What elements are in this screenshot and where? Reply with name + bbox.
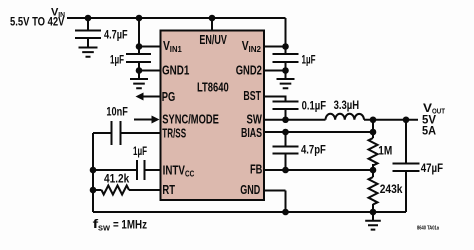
svg-text:5.5V TO 42V: 5.5V TO 42V (10, 17, 65, 29)
ground below C1 (79, 38, 98, 57)
capacitor C1 4.7uF plates (75, 31, 101, 39)
svg-text:IN1: IN1 (170, 45, 183, 54)
svg-text:SW: SW (98, 224, 111, 233)
wire FB line (264, 169, 373, 171)
svg-text:47µF: 47µF (421, 161, 443, 175)
wire INTVCC stub (145, 169, 161, 171)
capacitor C6 0.1uF plates (273, 102, 299, 110)
node dot L-divider (370, 116, 377, 123)
node dot VIN1 drop (136, 15, 143, 22)
resistor R3 243k (369, 177, 378, 205)
capacitor C7 4.7pF plates (273, 147, 299, 154)
node dot BIAS/C7 (282, 129, 289, 136)
svg-text:GND1: GND1 (162, 63, 189, 78)
svg-text:IN2: IN2 (249, 45, 262, 54)
svg-text:BST: BST (243, 88, 261, 103)
svg-text:GND2: GND2 (236, 63, 262, 78)
svg-text:0.1µF: 0.1µF (302, 99, 326, 113)
SYNC arrowhead (152, 116, 160, 124)
node dot SW/BST (282, 116, 289, 123)
svg-text:LT8640: LT8640 (197, 79, 229, 94)
capacitor C8 47uF lead bottom (405, 171, 407, 212)
svg-text:41.2k: 41.2k (104, 171, 129, 185)
wire FB node to R3 (372, 170, 374, 177)
IC U1 LT8640 body (161, 31, 265, 201)
wire 1uF to left bus (93, 169, 137, 171)
wire BIAS line (264, 131, 373, 133)
wire drop to VIN1 (138, 18, 140, 54)
capacitor C4 10nF plates (112, 121, 121, 145)
resistor R1 41.2k (102, 186, 129, 195)
node dot GND rail (282, 209, 289, 216)
svg-text:GND: GND (240, 182, 260, 197)
PG arrowhead (136, 93, 144, 101)
capacitor C1 4.7uF stub (87, 18, 89, 31)
wire GND1 stub (139, 70, 160, 72)
wire PG arrow shaft (142, 96, 160, 98)
inductor L1 3.3uH (326, 114, 365, 120)
wire VIN1 stub (139, 46, 160, 48)
svg-text:INTV: INTV (163, 163, 186, 178)
svg-text:1µF: 1µF (133, 144, 147, 158)
node dot BIAS divider (370, 129, 377, 136)
svg-text:1µF: 1µF (110, 52, 124, 66)
wire GND pin drop (285, 191, 287, 213)
ground below C2 (130, 79, 148, 88)
capacitor C8 47uF plates (393, 164, 420, 172)
capacitor C2 1uF plates (126, 54, 151, 62)
node dot VIN2 (282, 43, 289, 50)
wire bottom ground rail (93, 211, 406, 213)
svg-text:4.7pF: 4.7pF (301, 143, 326, 157)
ground below C3 (277, 79, 295, 88)
wire C2 to GND1 node (138, 62, 140, 79)
wire C3 to GND2 node (285, 62, 287, 79)
capacitor C3 1uF plates (VIN2) (273, 54, 299, 62)
svg-text:8640 TA01a: 8640 TA01a (417, 226, 440, 232)
svg-text:RT: RT (162, 182, 175, 197)
node dot GND1 (136, 67, 143, 74)
wire R1 to left bus (93, 189, 102, 191)
wire C6 to SW node (285, 109, 287, 120)
wire 10nF to left bus (93, 132, 112, 134)
svg-text:TR/SS: TR/SS (162, 126, 186, 141)
wire R2 to FB node (372, 164, 374, 170)
node dot input cap (85, 15, 92, 22)
wire divider top (372, 120, 374, 138)
svg-text:= 1MHz: = 1MHz (113, 218, 147, 232)
svg-text:3.3µH: 3.3µH (334, 98, 360, 112)
capacitor C8 47uF lead top (405, 120, 407, 164)
wire R3 to rail (372, 204, 374, 212)
wire VOUT line (364, 119, 418, 121)
wire drop to VIN2 (285, 18, 287, 54)
wire input rail VIN (67, 17, 286, 19)
capacitor C7 4.7pF lead bottom (285, 154, 287, 171)
wire GND2 stub (264, 70, 286, 72)
svg-text:FB: FB (250, 162, 262, 177)
svg-text:4.7µF: 4.7µF (104, 28, 128, 42)
node dot GND2 (282, 67, 289, 74)
node dot divider ground (370, 209, 377, 216)
resistor R2 1M (369, 138, 378, 166)
svg-text:BIAS: BIAS (241, 125, 262, 140)
wire SYNC/MODE arrow shaft (134, 119, 152, 121)
svg-text:CC: CC (185, 170, 194, 179)
svg-text:EN/UV: EN/UV (199, 32, 227, 47)
node dot INTVCC bus (90, 167, 97, 174)
node dot RT bus (90, 187, 97, 194)
wire VIN2 stub (264, 46, 286, 48)
wire EN/UV stub (211, 18, 213, 30)
svg-text:PG: PG (162, 89, 176, 104)
node dot EN/UV (209, 15, 216, 22)
node dot VOUT cap (403, 116, 410, 123)
wire BST stub (264, 97, 286, 102)
node dot VIN1 (136, 43, 143, 50)
ground below divider (365, 212, 381, 230)
svg-text:SYNC/MODE: SYNC/MODE (162, 112, 219, 127)
svg-text:10nF: 10nF (106, 104, 127, 118)
wire SW line (264, 119, 326, 121)
capacitor C7 4.7pF lead top (285, 132, 287, 147)
wire TR/SS stub (121, 132, 161, 134)
wire GND pin stub (264, 190, 286, 192)
node dot FB/C7 (282, 167, 289, 174)
svg-text:1µF: 1µF (302, 52, 316, 66)
svg-text:243k: 243k (380, 182, 403, 196)
wire RT stub (129, 189, 160, 191)
svg-text:1M: 1M (378, 144, 392, 158)
capacitor C5 1uF plates (INTVCC) (137, 160, 145, 180)
wire left vertical bus (92, 133, 94, 212)
node dot FB divider (370, 167, 377, 174)
svg-text:5A: 5A (422, 123, 436, 137)
